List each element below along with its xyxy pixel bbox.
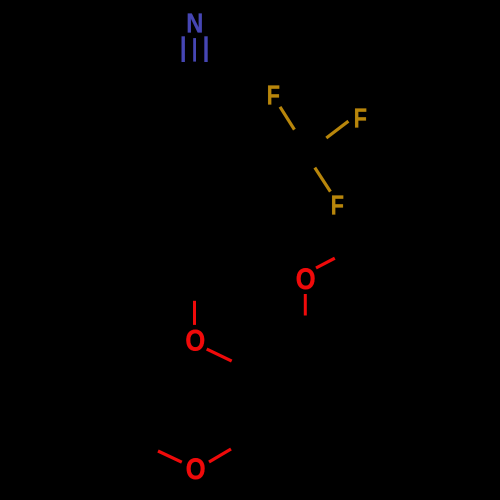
atom label O1 (top methoxy oxygen) bbox=[296, 262, 316, 295]
bond O3-CH3 half (red, up-left) bbox=[158, 451, 182, 462]
svg-text:F: F bbox=[267, 81, 280, 111]
bond O1-CH3 half (red, up-right) bbox=[316, 258, 335, 268]
triple bond C#N line 1 (left) bbox=[181, 36, 184, 62]
bond O2-ring half (red, down-right) bbox=[207, 349, 232, 361]
bond O2-CH3 half (red, vertical up) bbox=[193, 301, 196, 325]
atom label F1 (top-left fluorine of CF3) bbox=[267, 81, 280, 111]
atom label F2 (right fluorine of CF3) bbox=[354, 104, 367, 134]
svg-text:O: O bbox=[186, 452, 206, 485]
atom label F3 (bottom fluorine of CF3) bbox=[331, 191, 344, 221]
svg-text:F: F bbox=[331, 191, 344, 221]
bond F1-C half (olive) bbox=[280, 107, 294, 130]
triple bond C#N line 3 (right) bbox=[204, 36, 207, 62]
svg-text:O: O bbox=[296, 262, 316, 295]
bond O3-ring half (red, up-right) bbox=[209, 449, 231, 462]
svg-text:F: F bbox=[354, 104, 367, 134]
bond O1-ring half (red, vertical) bbox=[304, 294, 307, 316]
svg-text:N: N bbox=[186, 9, 203, 39]
atom label N (nitrile nitrogen) bbox=[186, 9, 203, 39]
bond C-F3 half (olive) bbox=[315, 168, 331, 192]
svg-text:O: O bbox=[185, 324, 205, 357]
atom label O2 (middle methoxy oxygen) bbox=[185, 324, 205, 357]
triple bond C#N line 2 (middle) bbox=[193, 38, 196, 62]
bond F2-C half (olive) bbox=[326, 121, 348, 138]
atom label O3 (bottom methoxy oxygen) bbox=[186, 452, 206, 485]
